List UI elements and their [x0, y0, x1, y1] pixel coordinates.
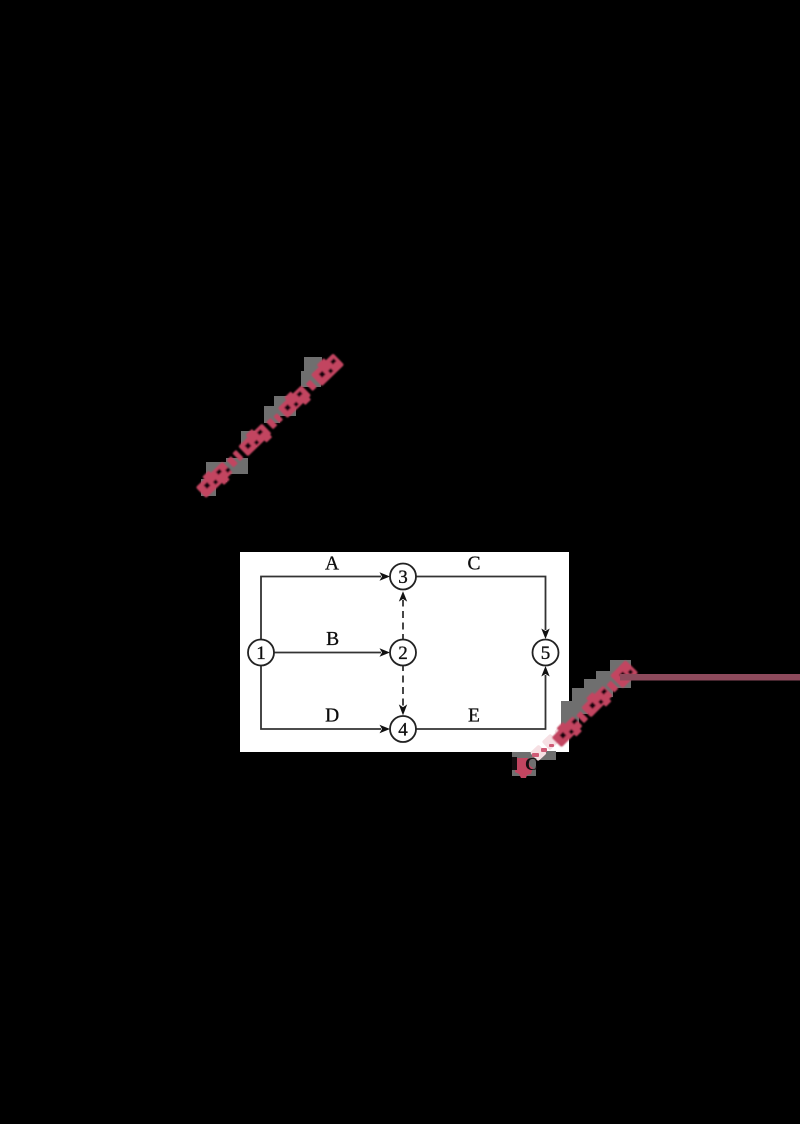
node 2	[390, 640, 416, 666]
svg-text:5: 5	[541, 643, 551, 664]
watermark 1 gray jpeg blocks	[201, 357, 322, 496]
arrowhead B into node 2	[380, 648, 391, 656]
wire 1 to 3 (activity A path: up then right)	[261, 577, 381, 641]
arrowhead dummy into node 3	[399, 591, 407, 601]
arrowhead A into node 3	[380, 572, 391, 580]
node 5	[533, 640, 559, 666]
svg-text:C: C	[525, 754, 538, 774]
arrowhead E into node 5	[541, 666, 549, 677]
wire 3 to 5 (activity C path: right then down)	[416, 577, 546, 631]
svg-text:D: D	[325, 706, 339, 727]
watermark 2 red blob on bottom gray block	[515, 758, 533, 778]
svg-text:3: 3	[398, 567, 408, 588]
watermark 2 gray jpeg blocks	[512, 660, 631, 776]
svg-text:B: B	[326, 629, 339, 650]
arrowhead dummy into node 4	[399, 704, 407, 715]
svg-text:C: C	[467, 554, 480, 575]
svg-text:2: 2	[398, 643, 408, 664]
watermark 2 dark glyph strokes on bottom gray block	[512, 757, 517, 770]
node 1	[248, 640, 274, 666]
svg-text:A: A	[325, 554, 339, 575]
wire 1 to 2 (activity B horizontal)	[274, 652, 381, 654]
svg-text:4: 4	[398, 720, 408, 741]
dashed wire 2 to 4 (dummy)	[402, 664, 404, 706]
watermark 1 red diagonal text streak	[193, 351, 346, 500]
node 4	[390, 716, 416, 742]
watermark 2 horizontal bar to right edge	[620, 674, 800, 681]
arrowhead C into node 5	[541, 629, 549, 640]
watermark 2 red diagonal text streak	[549, 659, 638, 749]
watermark 2 red speckles on white near block	[532, 744, 554, 757]
node 3	[390, 564, 416, 590]
dashed wire 2 to 3 (dummy)	[402, 600, 404, 641]
watermark 2 faint pink text on white panel	[530, 724, 569, 761]
arrowhead D into node 4	[380, 725, 391, 733]
svg-text:E: E	[468, 706, 480, 727]
wire 1 to 4 (activity D path: down then right)	[261, 665, 381, 729]
white panel background	[240, 552, 569, 752]
wire 4 to 5 (activity E path: right then up)	[416, 675, 546, 729]
svg-text:1: 1	[256, 643, 266, 664]
